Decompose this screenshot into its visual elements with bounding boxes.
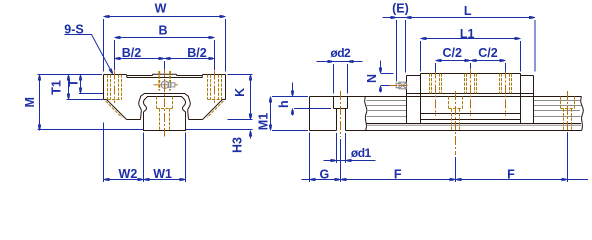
dimension T bbox=[80, 75, 82, 94]
svg-text:T: T bbox=[67, 79, 81, 87]
block bolt hole side 2 bbox=[464, 74, 466, 94]
svg-text:F: F bbox=[394, 167, 402, 181]
grease nipple circle bbox=[161, 81, 168, 88]
block side lower edge bbox=[407, 93, 534, 95]
svg-text:T1: T1 bbox=[49, 80, 63, 95]
dimension N bbox=[380, 61, 382, 74]
dimension B/2 right bbox=[165, 58, 215, 60]
svg-text:N: N bbox=[365, 74, 379, 83]
rail base edge line bbox=[367, 123, 582, 125]
bolt hole centerline left bbox=[114, 71, 116, 104]
end seal left bbox=[407, 75, 421, 77]
rail profile left view bbox=[143, 97, 185, 131]
svg-text:B/2: B/2 bbox=[187, 46, 207, 60]
end seal right bbox=[521, 75, 534, 77]
svg-text:G: G bbox=[320, 167, 330, 181]
dimension M bbox=[39, 75, 41, 131]
block body side view bbox=[421, 73, 521, 75]
rail hole 3 centerline bbox=[567, 91, 569, 137]
grease nipple side view bbox=[399, 82, 406, 89]
dimension L bbox=[529, 16, 535, 19]
svg-text:M1: M1 bbox=[257, 113, 271, 130]
dimension C/2 left bbox=[436, 60, 471, 62]
rail groove lines right bbox=[534, 100, 581, 102]
dimension C/2 right bbox=[471, 60, 506, 62]
dimension W bbox=[104, 16, 226, 18]
svg-text:M: M bbox=[23, 97, 37, 107]
centre extension line bbox=[164, 61, 166, 70]
rail break line bbox=[365, 97, 367, 131]
svg-text:H3: H3 bbox=[231, 137, 245, 153]
dimension B/2 left bbox=[115, 58, 165, 60]
dimension T1 bbox=[68, 75, 70, 100]
hidden chamfer edge left bbox=[106, 101, 123, 118]
hidden bolt hole left 9-S bbox=[107, 75, 109, 100]
block bolt hole side 1 bbox=[429, 74, 431, 94]
svg-text:B: B bbox=[158, 24, 167, 38]
svg-text:W2: W2 bbox=[119, 167, 138, 181]
svg-text:9-S: 9-S bbox=[64, 22, 83, 36]
rail counterbore section bbox=[333, 97, 335, 109]
block top inner line bbox=[127, 77, 202, 79]
nipple centerline side view bbox=[390, 85, 408, 87]
dimension od2 bbox=[317, 61, 363, 63]
dimension F first bbox=[341, 178, 347, 181]
rail center hole hidden bbox=[156, 97, 158, 109]
hidden bolt hole right bbox=[207, 75, 209, 100]
svg-text:C/2: C/2 bbox=[478, 46, 498, 60]
block outline left view bbox=[104, 74, 127, 76]
nipple horizontal centerline bbox=[154, 84, 161, 86]
dimension L1 bbox=[421, 38, 521, 40]
hidden chamfer edge right bbox=[207, 101, 224, 118]
rail hole 1 centerline bbox=[340, 91, 342, 137]
svg-text:L1: L1 bbox=[460, 27, 475, 41]
dimension W1 bbox=[144, 179, 186, 181]
dimension E bbox=[383, 17, 536, 19]
dimension G bbox=[302, 179, 589, 181]
block inner profile bbox=[139, 94, 191, 120]
svg-text:K: K bbox=[233, 88, 247, 97]
bolt hole centerline right bbox=[214, 71, 216, 104]
svg-text:ød1: ød1 bbox=[351, 146, 372, 160]
rail groove lines left bbox=[367, 100, 407, 102]
dimension B bbox=[115, 37, 215, 39]
dimension K bbox=[250, 75, 252, 120]
svg-text:(E): (E) bbox=[392, 2, 409, 16]
dimension od1 bbox=[324, 160, 376, 162]
dimension H3 bbox=[250, 108, 252, 120]
C/2 extension lines bbox=[435, 63, 437, 72]
block bolt hole side 3 bbox=[499, 74, 501, 94]
block hole centerlines bbox=[435, 70, 437, 117]
rail side outline bbox=[309, 97, 311, 131]
svg-text:h: h bbox=[277, 100, 291, 108]
dimension h bbox=[292, 83, 294, 97]
svg-text:L: L bbox=[464, 4, 472, 18]
rail end break bbox=[581, 97, 584, 131]
dimension M1 bbox=[270, 97, 272, 131]
dimension F second bbox=[456, 178, 462, 181]
leader 9-S bbox=[65, 35, 112, 73]
rail hole 2 hidden bbox=[448, 97, 450, 109]
rail hole 2 centerline bbox=[455, 91, 457, 155]
svg-text:W1: W1 bbox=[153, 167, 172, 181]
block top middle step bbox=[127, 75, 153, 77]
dimension W2 bbox=[104, 179, 144, 181]
rail base gray line bbox=[367, 124, 582, 126]
svg-text:ød2: ød2 bbox=[330, 46, 351, 60]
nipple hidden lines bbox=[158, 71, 160, 91]
svg-text:W: W bbox=[155, 2, 167, 16]
rail hole 3 hidden bbox=[560, 97, 562, 109]
bottom extension line bbox=[38, 129, 144, 131]
svg-text:B/2: B/2 bbox=[122, 46, 142, 60]
block top boss bbox=[153, 73, 177, 75]
main vertical centerline bbox=[164, 68, 166, 137]
svg-text:C/2: C/2 bbox=[442, 46, 462, 60]
rail top edge through block bbox=[407, 96, 534, 98]
svg-text:F: F bbox=[507, 167, 515, 181]
